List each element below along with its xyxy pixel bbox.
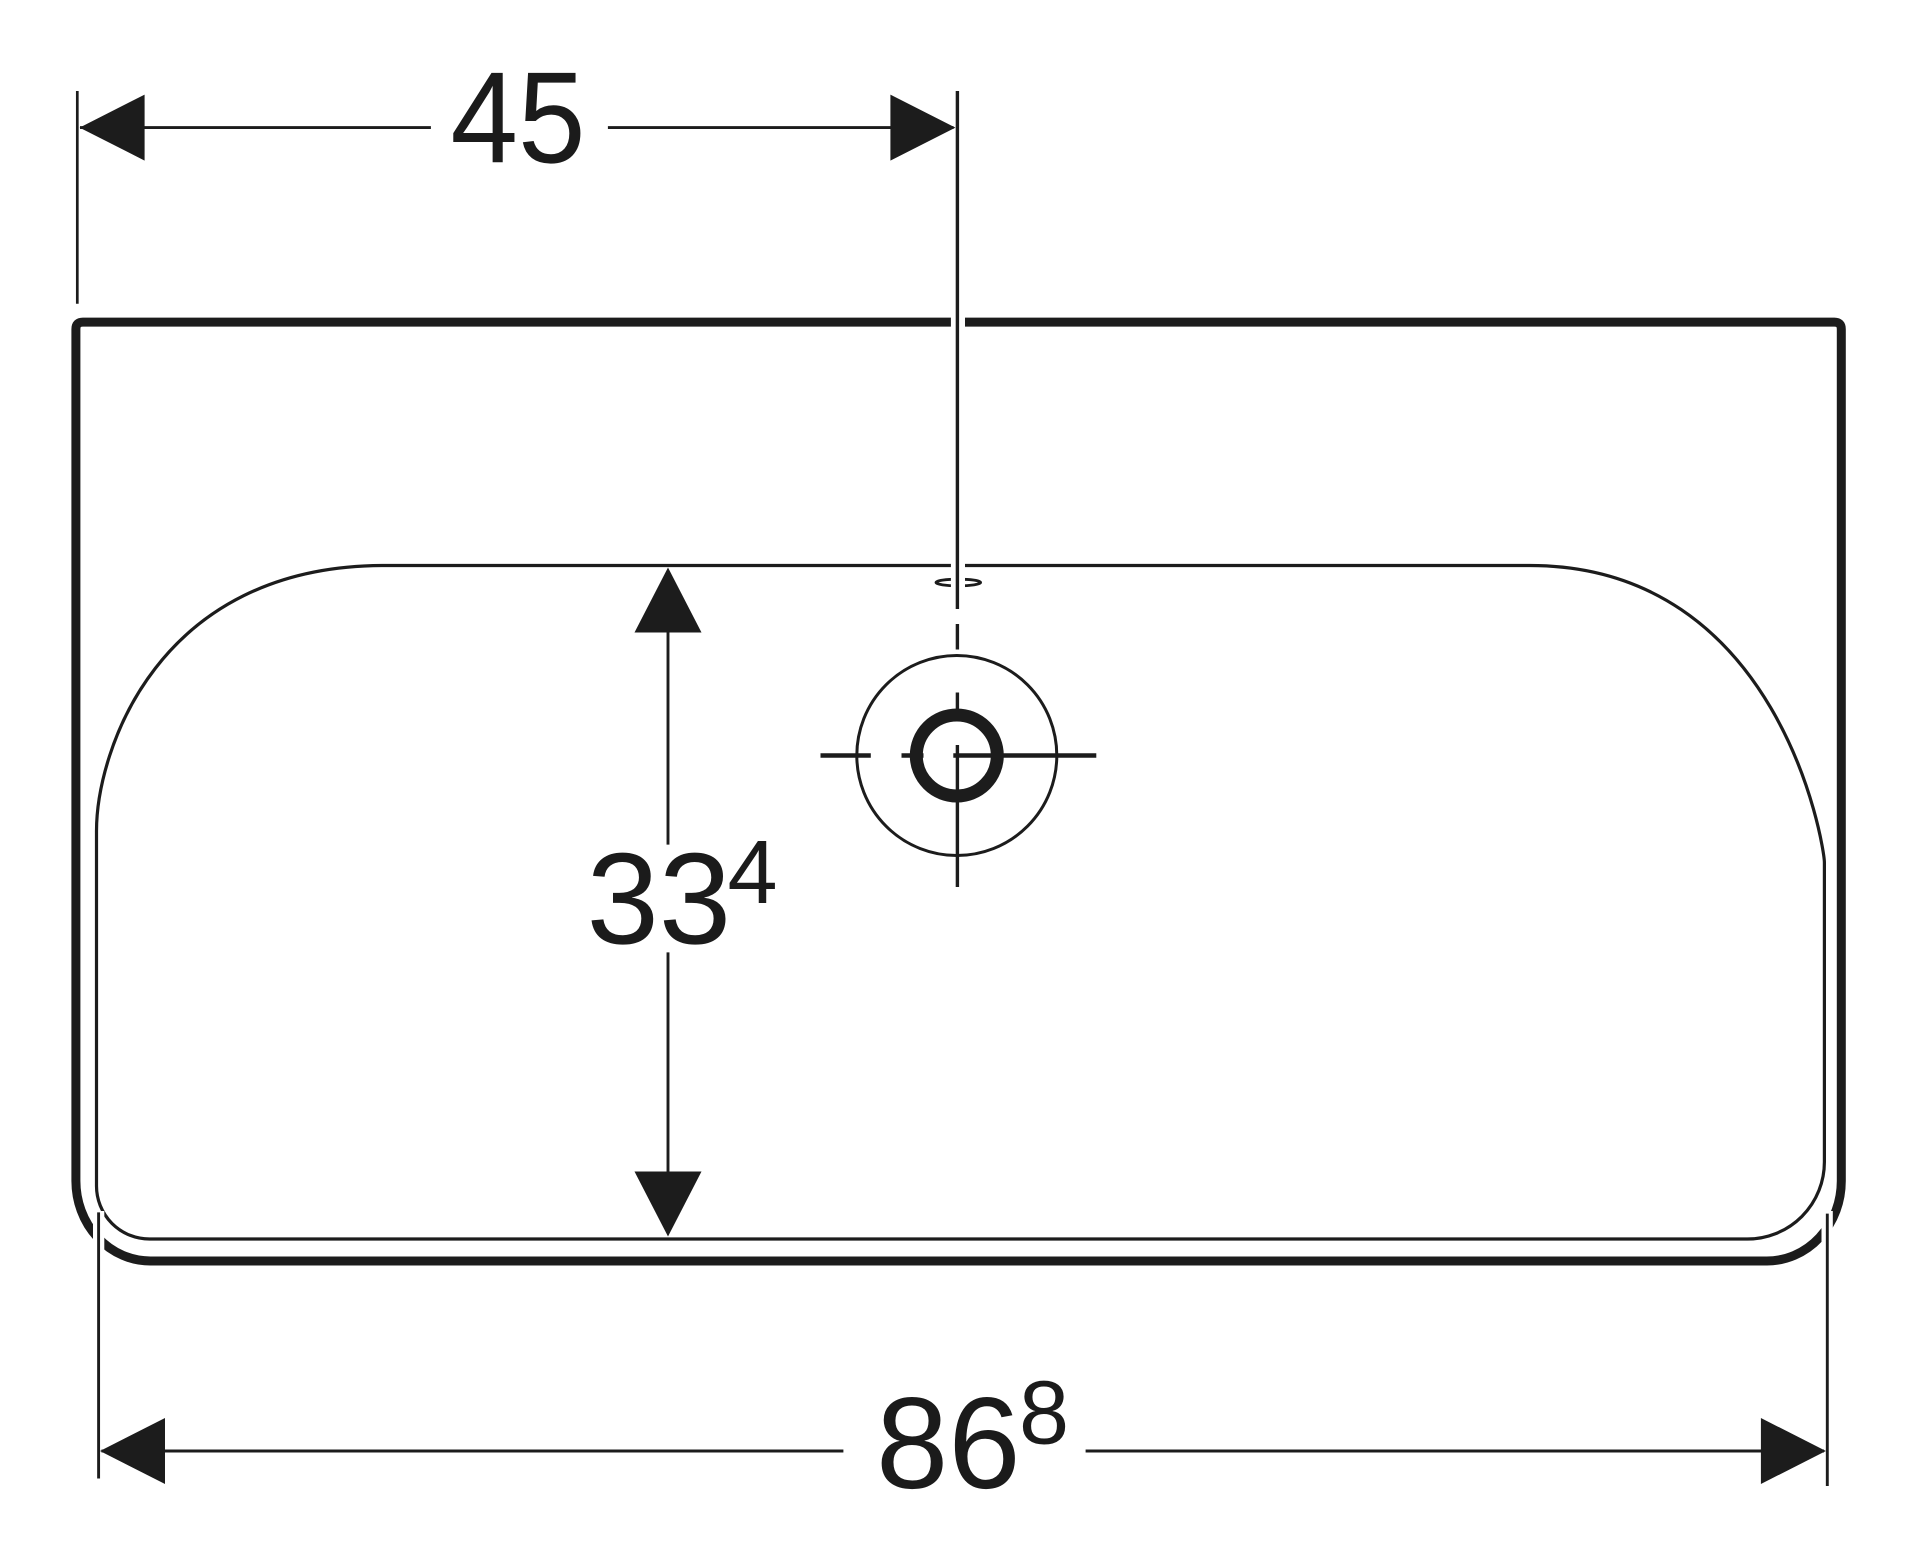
dimension 33.4 : top arrow xyxy=(635,568,702,633)
overflow slot ellipse xyxy=(936,579,981,586)
faucet hole outer circle xyxy=(857,656,1057,856)
dimension 45 : dimension line right segment xyxy=(608,126,954,129)
svg-text:4: 4 xyxy=(728,823,778,923)
svg-text:8: 8 xyxy=(1019,1364,1069,1464)
dimension 45 : right arrow xyxy=(890,95,955,161)
dimension 86.8 : left extension line xyxy=(97,1212,100,1478)
crosshair horizontal centerline xyxy=(821,753,1097,757)
svg-text:33: 33 xyxy=(587,825,732,971)
dimension 45 : left extension line xyxy=(76,91,79,304)
dimension 86.8 : dimension line right segment xyxy=(1086,1450,1824,1453)
dimension 86.8 : right extension line xyxy=(1826,1214,1829,1486)
white casing band over faucet centerline (cuts rim top edge, bowl top edge, overflow slot) xyxy=(951,88,965,610)
svg-text:45: 45 xyxy=(451,44,586,190)
dimension 33.4 : bottom arrow xyxy=(635,1172,702,1237)
dimension 86.8 : dimension line left segment xyxy=(102,1450,844,1453)
dimension 33.4 : dimension line lower segment xyxy=(667,952,670,1173)
dimension 86.8 : right arrow xyxy=(1761,1418,1826,1484)
white casing band bottom-left extension line xyxy=(93,1211,104,1272)
dimension 33.4 : dimension line upper segment xyxy=(667,630,670,845)
white casing band bottom-right extension line xyxy=(1822,1211,1833,1272)
faucet vertical centerline (also right extension of 45 dim) xyxy=(956,91,959,887)
faucet hole inner circle (thick) xyxy=(916,715,997,796)
dimension 45 : dimension line left segment xyxy=(80,126,431,129)
dimension 86.8 : left arrow xyxy=(100,1418,165,1484)
dimension 45 : left arrow xyxy=(80,95,145,161)
svg-text:86: 86 xyxy=(876,1370,1021,1516)
basin bowl (thin rounded outline) xyxy=(97,566,1825,1240)
washbasin outer rim (top view, thick outline with sagging front edge) xyxy=(76,322,1841,1261)
